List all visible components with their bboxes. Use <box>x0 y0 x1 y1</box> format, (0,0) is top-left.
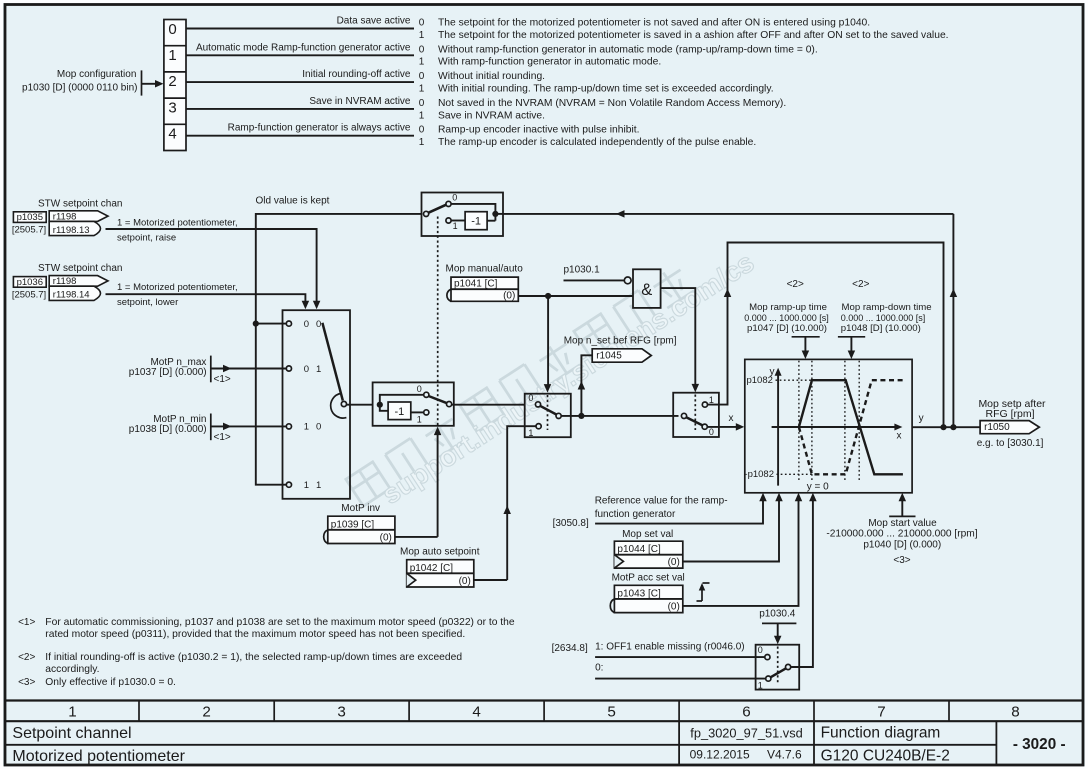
switch arm <box>429 205 447 213</box>
wire AND output <box>661 288 696 388</box>
svg-text:(0): (0) <box>503 290 515 301</box>
svg-text:0:: 0: <box>595 662 603 673</box>
svg-text:0: 0 <box>452 193 457 203</box>
svg-text:0: 0 <box>528 393 533 403</box>
selector switch box raise/lower <box>283 310 351 499</box>
svg-text:With ramp-function generator i: With ramp-function generator in automati… <box>438 57 661 68</box>
input bar MotP n_min <box>210 414 212 441</box>
svg-text:2: 2 <box>202 703 210 720</box>
svg-text:1: 1 <box>419 84 425 95</box>
svg-text:Save in NVRAM active.: Save in NVRAM active. <box>438 110 545 121</box>
dotted control line <box>547 395 549 430</box>
wire contact1 feedback loop <box>708 243 944 428</box>
svg-text:Data save active: Data save active <box>337 16 411 27</box>
svg-text:0: 0 <box>168 21 176 38</box>
svg-text:For automatic commissioning, p: For automatic commissioning, p1037 and p… <box>45 617 515 628</box>
contact 0 <box>446 201 451 206</box>
svg-text:p1035: p1035 <box>17 212 43 223</box>
contact 1 <box>766 676 771 681</box>
wire control to manual/auto switch <box>547 296 549 389</box>
svg-text:1: 1 <box>417 414 422 424</box>
svg-text:Not saved in the NVRAM (NVRAM: Not saved in the NVRAM (NVRAM = Non Vola… <box>438 98 786 109</box>
svg-text:STW setpoint chan: STW setpoint chan <box>38 198 122 209</box>
wire raise signal to selector <box>106 229 317 302</box>
parameter box p1036 <box>13 277 46 288</box>
svg-text:Initial rounding-off active: Initial rounding-off active <box>302 69 411 80</box>
svg-text:-210000.000 ... 210000.000 [r: -210000.000 ... 210000.000 [rpm] <box>826 528 977 539</box>
svg-text:x: x <box>897 430 902 441</box>
junction input <box>377 402 383 408</box>
wire p1039 to switch control <box>395 536 438 538</box>
svg-text:2: 2 <box>168 73 176 90</box>
contact 0 <box>535 402 540 407</box>
svg-text:<2>: <2> <box>852 279 869 290</box>
watermark diagonal band <box>346 246 760 510</box>
svg-text:MotP acc set val: MotP acc set val <box>612 573 685 584</box>
junction p1041 <box>545 293 551 299</box>
svg-text:[2505.7]: [2505.7] <box>12 289 46 300</box>
connector output r1045 <box>592 349 651 362</box>
wire p1041 output <box>518 295 633 297</box>
svg-text:0: 0 <box>758 645 763 655</box>
parameter box p1035 <box>13 212 46 223</box>
pivot contact <box>681 413 686 418</box>
svg-text:4: 4 <box>472 703 480 720</box>
switch box old value kept <box>422 193 504 237</box>
svg-text:0: 0 <box>419 125 425 136</box>
switch pivot contact <box>424 211 429 216</box>
svg-text:Mop ramp-up time: Mop ramp-up time <box>749 302 827 313</box>
svg-text:Ramp-up encoder inactive with: Ramp-up encoder inactive with pulse inhi… <box>438 125 639 136</box>
wire contact1 to -1 <box>451 220 465 222</box>
svg-text:p1037 [D] (0.000): p1037 [D] (0.000) <box>129 367 207 378</box>
control arrow p1030.4 <box>777 623 779 640</box>
svg-text:Mop ramp-down time: Mop ramp-down time <box>842 302 932 313</box>
svg-text:p1039 [C]: p1039 [C] <box>331 519 375 530</box>
pivot <box>556 413 561 418</box>
svg-text:Mop configuration: Mop configuration <box>57 69 137 80</box>
svg-text:5: 5 <box>607 703 615 720</box>
junction r1045 branch <box>578 413 584 419</box>
wire selector output <box>347 404 373 406</box>
svg-text:accordingly.: accordingly. <box>45 664 99 675</box>
svg-text:1: 1 <box>168 47 176 64</box>
switch arm <box>429 396 448 403</box>
svg-text:<1>: <1> <box>214 374 231 385</box>
svg-text:setpoint, raise: setpoint, raise <box>117 232 176 243</box>
svg-text:0: 0 <box>419 98 425 109</box>
connector output r1050 <box>980 421 1039 434</box>
svg-text:The setpoint for the motorized: The setpoint for the motorized potentiom… <box>438 30 949 41</box>
wire lower signal to selector <box>106 294 306 301</box>
wire reference value to RFG <box>595 497 763 524</box>
svg-text:0.000 ... 1000.000 [s]: 0.000 ... 1000.000 [s] <box>841 313 926 323</box>
binector shape r1198.13 <box>49 221 100 235</box>
svg-text:0 0: 0 0 <box>304 319 324 330</box>
dotted control line <box>777 647 779 685</box>
dashed mirror ramp curve <box>799 380 903 474</box>
svg-text:p1082: p1082 <box>746 375 772 386</box>
switch box manual/auto <box>525 394 571 438</box>
wire bit 2 <box>186 81 414 83</box>
footer table grid <box>6 699 1082 701</box>
svg-text:1: 1 <box>419 30 425 41</box>
wire contact0 to output <box>451 204 495 214</box>
selector input 1 0 <box>286 424 291 429</box>
svg-text:1: 1 <box>528 428 533 438</box>
switch box invert (lower) <box>373 382 454 425</box>
svg-text:e.g. to [3030.1]: e.g. to [3030.1] <box>977 438 1044 449</box>
svg-text:r1045: r1045 <box>596 351 622 362</box>
svg-text:0: 0 <box>419 71 425 82</box>
contact 1 <box>702 402 707 407</box>
input bar MotP n_max <box>210 356 212 383</box>
svg-text:p1044 [C]: p1044 [C] <box>617 544 661 555</box>
svg-text:1: 1 <box>709 395 714 405</box>
svg-text:p1030.4: p1030.4 <box>759 609 796 620</box>
svg-text:r1050: r1050 <box>984 422 1010 433</box>
wire MotP n_max <box>211 368 286 370</box>
svg-text:09.12.2015: 09.12.2015 <box>690 748 750 762</box>
wire input 0 to contact 1 <box>595 678 766 680</box>
svg-text:(0): (0) <box>668 602 680 613</box>
svg-text:<3>: <3> <box>18 677 35 688</box>
svg-text:rated motor speed (p0311), pro: rated motor speed (p0311), provided that… <box>45 629 465 640</box>
junction <box>492 211 498 217</box>
svg-text:STW setpoint chan: STW setpoint chan <box>38 263 122 274</box>
wire input split up <box>380 395 424 405</box>
switch arm <box>771 668 787 677</box>
input bar and arrow into bit 2 <box>141 70 143 95</box>
pivot <box>447 402 452 407</box>
wire feedback old-value (r1050 to switch) <box>503 213 953 215</box>
svg-text:Save in NVRAM active: Save in NVRAM active <box>309 96 411 107</box>
svg-text:y = 0: y = 0 <box>807 482 829 493</box>
svg-text:3: 3 <box>337 703 345 720</box>
svg-text:-1: -1 <box>395 406 405 418</box>
contact 1 <box>424 410 429 415</box>
svg-text:p1047 [D] (10.000): p1047 [D] (10.000) <box>747 323 827 334</box>
switch arm <box>540 406 557 415</box>
svg-text:0: 0 <box>419 44 425 55</box>
svg-text:1: OFF1 enable missing (r0046.: 1: OFF1 enable missing (r0046.0) <box>595 642 745 653</box>
switch box OFF1 enable <box>756 645 800 690</box>
svg-text:Motorized potentiometer: Motorized potentiometer <box>12 748 185 765</box>
svg-text:The setpoint for the motorized: The setpoint for the motorized potentiom… <box>438 18 870 29</box>
svg-text:Mop auto setpoint: Mop auto setpoint <box>400 547 480 558</box>
svg-text:(0): (0) <box>380 533 392 544</box>
svg-text:p1043 [C]: p1043 [C] <box>617 588 661 599</box>
svg-text:y: y <box>919 413 924 424</box>
svg-text:p1030.1: p1030.1 <box>564 265 601 276</box>
svg-text:Mop n_set bef RFG [rpm]: Mop n_set bef RFG [rpm] <box>564 336 677 347</box>
selector switch arm <box>322 323 342 401</box>
svg-text:1: 1 <box>453 221 458 231</box>
junction feedback 2 <box>950 424 956 430</box>
wire p1030.1 to AND <box>564 279 625 281</box>
svg-text:- 3020 -: - 3020 - <box>1013 736 1066 753</box>
dotted verticals ramp times <box>798 361 800 482</box>
wire output <box>452 404 525 406</box>
dotted control linkage for -1 switches <box>437 217 439 426</box>
p1047 arrow into RFG <box>792 336 820 338</box>
svg-text:1: 1 <box>419 110 425 121</box>
wire p1042 to contact 1 <box>507 426 536 580</box>
wire RFG output y <box>912 426 980 428</box>
svg-text:p1048 [D] (10.000): p1048 [D] (10.000) <box>841 323 921 334</box>
svg-text:x: x <box>729 413 734 424</box>
block -1 (invert) <box>465 212 487 230</box>
svg-text:1 1: 1 1 <box>304 480 324 491</box>
svg-text:r1198.13: r1198.13 <box>53 225 90 236</box>
wire p1042 output <box>474 579 507 581</box>
wire feedback vertical right <box>952 214 954 427</box>
svg-text:<3>: <3> <box>893 555 910 566</box>
svg-text:&: & <box>641 281 652 299</box>
wire -1 output <box>487 220 495 222</box>
svg-text:8: 8 <box>1011 703 1019 720</box>
svg-text:Automatic mode Ramp-function g: Automatic mode Ramp-function generator a… <box>196 42 411 53</box>
switch box RFG bypass <box>673 393 719 437</box>
junction feedback 1 <box>940 424 946 430</box>
svg-text:V4.7.6: V4.7.6 <box>767 748 802 762</box>
svg-text:p1042 [C]: p1042 [C] <box>410 563 454 574</box>
selector input 0 0 <box>286 321 291 326</box>
svg-text:(0): (0) <box>668 557 680 568</box>
wire p1043 to RFG <box>683 497 799 606</box>
connector flag r1198 <box>49 276 108 287</box>
selector pivot <box>331 393 347 418</box>
solid ramp curve <box>799 380 903 474</box>
svg-text:0: 0 <box>709 427 714 437</box>
wire to r1045 <box>581 355 592 416</box>
svg-text:MotP inv: MotP inv <box>341 503 380 514</box>
svg-text:1: 1 <box>758 681 763 691</box>
svg-text:<2>: <2> <box>18 652 35 663</box>
svg-text:Only effective if p1030.0 = 0.: Only effective if p1030.0 = 0. <box>45 677 176 688</box>
contact 0 <box>702 424 707 429</box>
svg-text:7: 7 <box>877 703 885 720</box>
wire bit 4 <box>186 135 414 137</box>
svg-text:Mop manual/auto: Mop manual/auto <box>446 264 524 275</box>
svg-text:4: 4 <box>168 126 176 143</box>
svg-text:Mop start value: Mop start value <box>868 518 937 529</box>
wire input split down to -1 <box>380 405 388 411</box>
svg-text:Setpoint channel: Setpoint channel <box>12 725 131 742</box>
switch arm <box>686 417 702 425</box>
junction old-value to 0 0 input <box>253 321 259 327</box>
contact 0 <box>424 392 429 397</box>
wire bit 3 <box>186 108 414 110</box>
svg-text:<1>: <1> <box>214 432 231 443</box>
wire output to junction <box>561 415 678 417</box>
svg-text:-1: -1 <box>471 216 481 228</box>
svg-text:<2>: <2> <box>787 279 804 290</box>
svg-text:The ramp-up encoder is calcula: The ramp-up encoder is calculated indepe… <box>438 137 756 148</box>
wire p1040 into RFG <box>889 515 915 517</box>
wire switch output to RFG <box>791 497 813 668</box>
rising edge symbol <box>697 600 703 602</box>
svg-text:If initial rounding-off is act: If initial rounding-off is active (p1030… <box>45 652 462 663</box>
contact 1 <box>446 218 451 223</box>
svg-text:1 0: 1 0 <box>304 422 324 433</box>
svg-text:function generator: function generator <box>595 509 676 520</box>
svg-text:3: 3 <box>168 99 176 116</box>
svg-text:[3050.8]: [3050.8] <box>553 518 589 529</box>
wire old value vertical <box>256 214 422 485</box>
control arrow from p1039 <box>437 431 439 537</box>
svg-text:With initial rounding. The ram: With initial rounding. The ramp-up/down … <box>438 84 774 95</box>
AND gate U1 <box>633 269 661 308</box>
connector p1039 <box>328 516 395 543</box>
svg-text:(0): (0) <box>459 576 471 587</box>
contact 0 <box>765 655 770 660</box>
svg-text:1: 1 <box>419 57 425 68</box>
svg-text:Ramp-function generator is alw: Ramp-function generator is always active <box>228 123 411 134</box>
svg-text:p1038 [D] (0.000): p1038 [D] (0.000) <box>129 424 207 435</box>
svg-text:[2634.8]: [2634.8] <box>552 643 588 654</box>
wire bit 1 <box>186 54 414 56</box>
svg-text:r1198.14: r1198.14 <box>53 290 90 301</box>
svg-text:Without ramp-function generato: Without ramp-function generator in autom… <box>438 44 818 55</box>
svg-text:p1030 [D] (0000 0110 bin): p1030 [D] (0000 0110 bin) <box>22 82 137 93</box>
svg-text:RFG [rpm]: RFG [rpm] <box>986 408 1035 420</box>
connector flag r1198 <box>49 211 108 222</box>
pivot <box>786 664 791 669</box>
svg-text:0.000 ... 1000.000 [s]: 0.000 ... 1000.000 [s] <box>744 313 829 323</box>
svg-text:0: 0 <box>419 18 425 29</box>
bit selector column p1030 <box>164 20 186 151</box>
inverter bubble <box>624 277 631 284</box>
ramp-function generator block <box>745 359 912 492</box>
contact 1 <box>536 424 541 429</box>
wire -1 to contact 1 <box>411 411 424 413</box>
svg-text:0 1: 0 1 <box>304 364 324 375</box>
svg-text:setpoint, lower: setpoint, lower <box>117 297 178 308</box>
connector p1041 <box>451 277 518 301</box>
wire bit 0 <box>186 28 414 30</box>
connector p1044 <box>614 541 682 568</box>
p1048 arrow into RFG <box>838 336 865 338</box>
svg-text:p1040 [D] (0.000): p1040 [D] (0.000) <box>863 540 941 551</box>
svg-text:6: 6 <box>742 703 750 720</box>
svg-text:1 = Motorized potentiometer,: 1 = Motorized potentiometer, <box>117 217 238 228</box>
svg-text:1: 1 <box>419 137 425 148</box>
connector p1043 <box>614 585 682 612</box>
svg-text:Mop set val: Mop set val <box>622 529 673 540</box>
block -1 (invert) <box>388 402 411 420</box>
selector input 1 1 <box>286 482 291 487</box>
svg-text:1: 1 <box>68 703 76 720</box>
wire input 1 to contact 0 <box>595 656 765 658</box>
svg-text:Reference value for the ramp-: Reference value for the ramp- <box>595 495 728 506</box>
x axis <box>772 426 899 428</box>
svg-text:Old value is kept: Old value is kept <box>256 196 330 207</box>
wire x into RFG <box>707 426 740 428</box>
svg-text:fp_3020_97_51.vsd: fp_3020_97_51.vsd <box>690 726 802 741</box>
svg-text:-p1082: -p1082 <box>744 469 774 480</box>
selector input 0 1 <box>286 366 291 371</box>
y axis <box>777 371 779 486</box>
svg-text:Without initial rounding.: Without initial rounding. <box>438 71 545 82</box>
svg-text:1 = Motorized potentiometer,: 1 = Motorized potentiometer, <box>117 282 238 293</box>
svg-text:p1036: p1036 <box>17 277 43 288</box>
svg-text:[2505.7]: [2505.7] <box>12 225 46 236</box>
svg-text:p1041 [C]: p1041 [C] <box>454 279 498 290</box>
binector shape r1198.14 <box>49 286 100 300</box>
svg-text:<1>: <1> <box>18 617 35 628</box>
svg-text:0: 0 <box>417 384 422 394</box>
svg-text:G120 CU240B/E-2: G120 CU240B/E-2 <box>821 748 950 765</box>
wire p1044 to RFG <box>683 497 779 562</box>
dotted control line <box>694 395 696 431</box>
connector p1042 <box>407 560 474 587</box>
svg-text:Function diagram: Function diagram <box>821 725 941 742</box>
wire MotP n_min <box>211 425 286 427</box>
